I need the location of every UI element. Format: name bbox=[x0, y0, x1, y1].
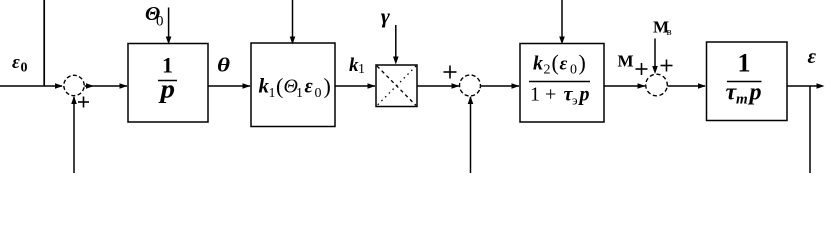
svg-text:m: m bbox=[736, 92, 748, 108]
svg-text:): ) bbox=[579, 50, 586, 75]
svg-text:ε: ε bbox=[808, 46, 817, 68]
svg-text:в: в bbox=[667, 26, 672, 38]
svg-text:ε: ε bbox=[12, 52, 20, 73]
svg-text:1: 1 bbox=[358, 62, 365, 77]
svg-text:ε: ε bbox=[560, 54, 568, 75]
svg-text:(: ( bbox=[276, 74, 283, 99]
svg-text:1: 1 bbox=[269, 86, 276, 101]
svg-text:p: p bbox=[748, 80, 762, 106]
svg-text:э: э bbox=[572, 93, 578, 108]
svg-text:1: 1 bbox=[296, 86, 303, 101]
svg-text:p: p bbox=[578, 84, 590, 106]
svg-text:0: 0 bbox=[21, 61, 28, 76]
svg-text:M: M bbox=[618, 52, 634, 71]
svg-text:ε: ε bbox=[305, 76, 314, 98]
svg-text:p: p bbox=[158, 75, 175, 104]
svg-text:γ: γ bbox=[381, 6, 391, 28]
svg-text:): ) bbox=[324, 74, 331, 99]
svg-text:2: 2 bbox=[544, 63, 551, 78]
svg-text:0: 0 bbox=[156, 14, 164, 30]
svg-text:0: 0 bbox=[570, 63, 577, 78]
svg-text:(: ( bbox=[552, 50, 559, 75]
svg-text:1: 1 bbox=[738, 49, 751, 78]
svg-text:θ: θ bbox=[217, 55, 231, 77]
svg-text:1 +: 1 + bbox=[530, 84, 556, 106]
svg-text:k: k bbox=[533, 53, 543, 75]
svg-text:0: 0 bbox=[315, 86, 322, 101]
